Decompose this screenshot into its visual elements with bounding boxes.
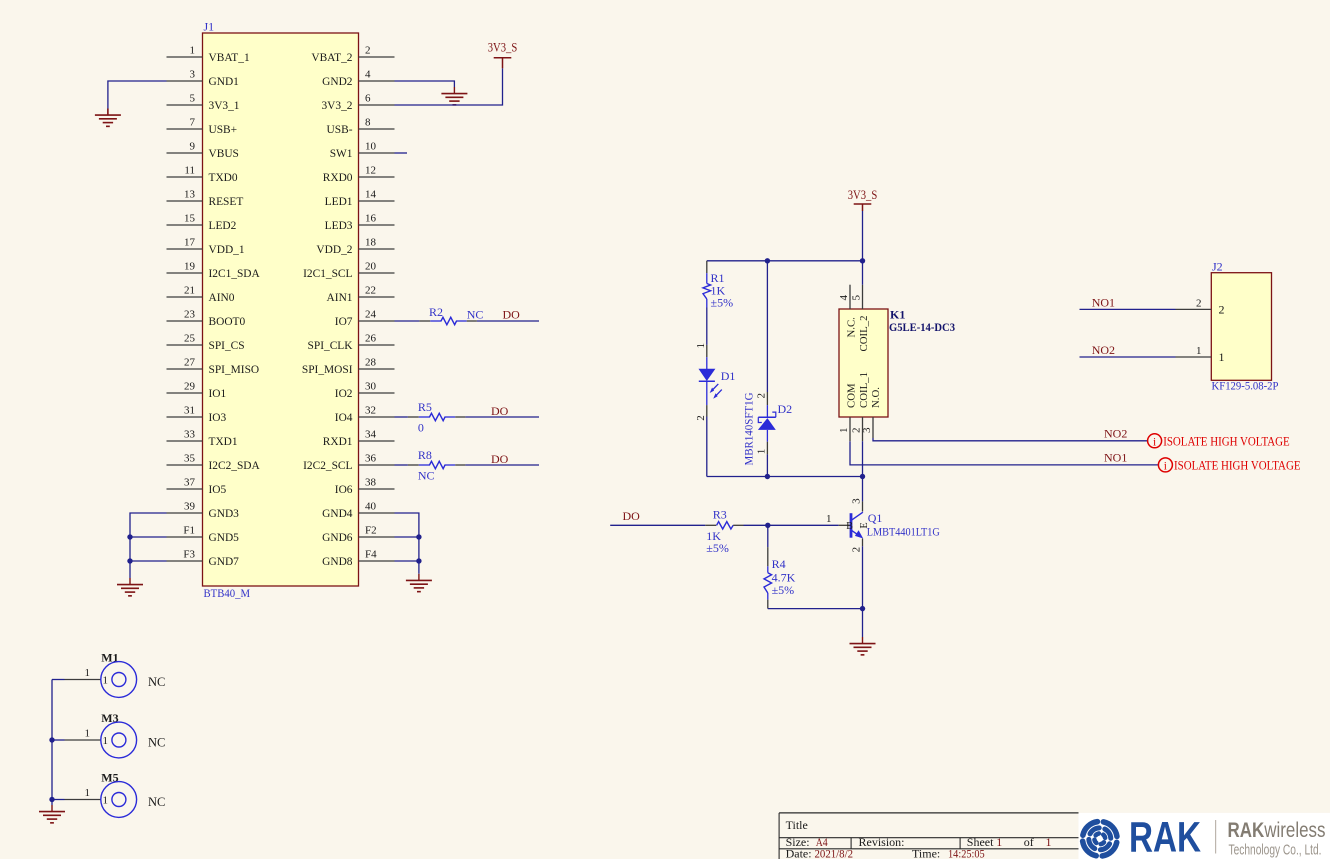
svg-text:2: 2 (851, 547, 863, 553)
ground (GND1) (95, 109, 121, 127)
svg-text:18: 18 (365, 237, 377, 249)
svg-text:33: 33 (184, 429, 196, 441)
svg-text:VDD_1: VDD_1 (209, 244, 245, 256)
junction (416, 558, 421, 563)
mounting hole M5 (52, 771, 165, 818)
svg-text:G5LE-14-DC3: G5LE-14-DC3 (889, 320, 955, 334)
svg-text:13: 13 (184, 189, 196, 201)
wire NO1 (relay pin1 to isolate) (850, 441, 1158, 465)
J1 pin 36 (I2C2_SCL) (303, 453, 394, 473)
svg-text:0: 0 (418, 420, 424, 434)
J1 pin 2 (VBAT_2) (311, 45, 394, 65)
junction (416, 534, 421, 539)
wire R2 to DO (477, 320, 539, 322)
J1 pin 27 (SPI_MISO) (167, 357, 260, 377)
svg-text:3V3_S: 3V3_S (488, 41, 518, 55)
svg-text:28: 28 (365, 357, 377, 369)
svg-text:30: 30 (365, 381, 377, 393)
J1 pin F2 (GND6) (322, 525, 394, 545)
ground (emitter) (850, 637, 876, 655)
J1 pin 29 (IO1) (167, 381, 227, 401)
svg-text:Revision:: Revision: (859, 835, 905, 849)
wire emitter down to ground node (862, 546, 864, 608)
title block row: date/time (786, 846, 985, 859)
wire D2 to bottom bus (766, 454, 768, 476)
svg-text:3V3_1: 3V3_1 (209, 100, 240, 112)
svg-text:1: 1 (85, 728, 91, 740)
svg-text:IO3: IO3 (209, 412, 227, 424)
J1 pin 23 (BOOT0) (167, 309, 246, 329)
ground (GND2) (441, 87, 467, 105)
svg-text:COIL_2: COIL_2 (858, 316, 870, 352)
svg-text:Technology Co., Ltd.: Technology Co., Ltd. (1229, 842, 1322, 859)
svg-text:USB-: USB- (327, 124, 353, 136)
wire pin2 to bottom bus (862, 441, 864, 476)
wire collector to bottom bus (862, 477, 864, 502)
J2 pin 1 (1176, 345, 1225, 364)
svg-text:NO2: NO2 (1092, 343, 1115, 357)
svg-text:D2: D2 (778, 402, 793, 416)
resistor R1 (703, 261, 733, 310)
svg-text:16: 16 (365, 213, 377, 225)
wire (107, 109, 109, 115)
K1 pin 1 (COM) (838, 383, 858, 441)
svg-text:J1: J1 (204, 20, 215, 34)
wire NO1 to J2 pin2 (1080, 308, 1176, 310)
J1 pin 3 (GND1) (167, 69, 240, 89)
wire mounting-hole bus (51, 680, 53, 800)
power symbol 3V3_S (relay supply) (854, 204, 872, 211)
svg-text:AIN1: AIN1 (327, 292, 353, 304)
J1 pin 10 (SW1) (330, 141, 395, 161)
svg-text:VBAT_1: VBAT_1 (209, 52, 250, 64)
junction (765, 523, 770, 528)
J1 pin 26 (SPI_CLK) (308, 333, 395, 353)
svg-text:3V3_2: 3V3_2 (321, 100, 352, 112)
svg-text:1: 1 (1196, 345, 1202, 357)
J1 pin 8 (USB-) (327, 117, 395, 137)
svg-text:2: 2 (756, 393, 768, 399)
svg-text:DO: DO (503, 308, 521, 322)
J1 pin 12 (RXD0) (323, 165, 395, 185)
svg-text:IO6: IO6 (335, 484, 353, 496)
wire F4 (395, 560, 419, 562)
svg-text:MBR140SFT1G: MBR140SFT1G (742, 392, 756, 465)
J1 pin F3 (GND7) (167, 549, 240, 569)
J1 pin 15 (LED2) (167, 213, 237, 233)
svg-text:19: 19 (184, 261, 196, 273)
svg-text:NC: NC (418, 468, 435, 482)
J1 pin 16 (LED3) (325, 213, 395, 233)
svg-text:1: 1 (695, 343, 707, 349)
wire bottom coil bus (707, 476, 863, 478)
J1 pin 9 (VBUS) (167, 141, 239, 161)
svg-text:J2: J2 (1212, 259, 1223, 273)
svg-text:1: 1 (826, 513, 832, 525)
svg-text:11: 11 (184, 165, 195, 177)
svg-text:14: 14 (365, 189, 377, 201)
svg-text:38: 38 (365, 477, 377, 489)
J1 pin 34 (RXD1) (323, 429, 395, 449)
svg-text:GND6: GND6 (322, 532, 353, 544)
ground (mounting holes) (39, 805, 65, 823)
svg-text:USB+: USB+ (209, 124, 238, 136)
junction (860, 258, 865, 263)
svg-text:3: 3 (851, 498, 863, 504)
wire R3 to Q1 base (744, 524, 839, 526)
svg-text:5: 5 (190, 93, 196, 105)
ground (GND3 bus) (117, 578, 143, 596)
svg-text:35: 35 (184, 453, 196, 465)
svg-text:1: 1 (756, 449, 768, 455)
svg-text:1: 1 (103, 795, 109, 807)
J1 pin 5 (3V3_1) (167, 93, 240, 113)
svg-text:32: 32 (365, 405, 376, 417)
resistor R5 (408, 400, 466, 434)
svg-text:2: 2 (1219, 303, 1225, 317)
svg-text:31: 31 (184, 405, 195, 417)
Q1 collector pin 3 (862, 501, 864, 511)
J1 pin 39 (GND3) (167, 501, 240, 521)
wire pin32 to R5 (395, 416, 408, 418)
svg-text:VDD_2: VDD_2 (316, 244, 352, 256)
svg-text:NC: NC (148, 736, 165, 750)
svg-text:NC: NC (148, 795, 165, 809)
RAK logo pinwheel icon (1083, 822, 1117, 856)
wire DO to R3 (610, 524, 705, 526)
wire SW1 pin10 stub (395, 152, 408, 154)
svg-text:1: 1 (103, 735, 109, 747)
J1 pin 32 (IO4) (335, 405, 395, 425)
svg-text:AIN0: AIN0 (209, 292, 235, 304)
svg-text:VBAT_2: VBAT_2 (311, 52, 352, 64)
svg-text:LMBT4401LT1G: LMBT4401LT1G (867, 525, 940, 539)
svg-text:I2C1_SDA: I2C1_SDA (209, 268, 261, 280)
logo background panel (1079, 813, 1330, 859)
resistor R8 (408, 448, 466, 482)
svg-text:4: 4 (365, 69, 371, 81)
svg-text:LED2: LED2 (209, 220, 237, 232)
wire GND2 pin4 to ground (395, 81, 455, 87)
J2 pin 2 (1176, 297, 1225, 316)
svg-text:NC: NC (467, 308, 484, 322)
J1 pin 1 (VBAT_1) (167, 45, 250, 65)
J1 pin 7 (USB+) (167, 117, 238, 137)
J1 pin 18 (VDD_2) (316, 237, 394, 257)
resistor R4 (764, 547, 796, 609)
svg-text:TXD0: TXD0 (209, 172, 238, 184)
svg-text:NO1: NO1 (1104, 450, 1127, 464)
svg-text:LED1: LED1 (325, 196, 353, 208)
isolate marker circle (NO2) (1148, 434, 1162, 448)
svg-text:GND4: GND4 (322, 508, 353, 520)
svg-text:i: i (1153, 436, 1156, 448)
svg-text:2021/8/2: 2021/8/2 (815, 846, 854, 859)
J1 pin 4 (GND2) (322, 69, 394, 89)
svg-text:21: 21 (184, 285, 195, 297)
svg-text:17: 17 (184, 237, 196, 249)
svg-text:SPI_MOSI: SPI_MOSI (302, 364, 353, 376)
logo divider (1215, 820, 1217, 854)
J1 pin 6 (3V3_2) (321, 93, 394, 113)
svg-text:ISOLATE HIGH VOLTAGE: ISOLATE HIGH VOLTAGE (1163, 434, 1290, 448)
svg-text:39: 39 (184, 501, 196, 513)
svg-text:IO7: IO7 (335, 316, 353, 328)
J1 pin 14 (LED1) (325, 189, 395, 209)
svg-text:KF129-5.08-2P: KF129-5.08-2P (1212, 379, 1279, 393)
wire pin36 to R8 (395, 464, 408, 466)
svg-text:Date:: Date: (786, 846, 812, 859)
svg-text:TXD1: TXD1 (209, 436, 238, 448)
svg-text:36: 36 (365, 453, 377, 465)
svg-text:BTB40_M: BTB40_M (204, 586, 251, 600)
title block table (779, 813, 1078, 859)
svg-text:SPI_CS: SPI_CS (209, 340, 245, 352)
J1 pin 37 (IO5) (167, 477, 227, 497)
J1 pin 33 (TXD1) (167, 429, 238, 449)
K1 pin 5 (COIL_2) (851, 285, 871, 352)
wire emitter node to ground (862, 609, 864, 637)
svg-text:1: 1 (1046, 835, 1052, 849)
svg-text:IO5: IO5 (209, 484, 227, 496)
svg-text:I2C2_SCL: I2C2_SCL (303, 460, 352, 472)
svg-text:14:25:05: 14:25:05 (948, 846, 985, 859)
svg-text:NO1: NO1 (1092, 295, 1115, 309)
J1 pin 35 (I2C2_SDA) (167, 453, 261, 473)
svg-text:1: 1 (190, 45, 196, 57)
J1 pin 24 (IO7) (335, 309, 395, 329)
svg-text:GND5: GND5 (209, 532, 240, 544)
svg-text:RXD0: RXD0 (323, 172, 353, 184)
wire 3V3_S down to top bus (862, 211, 864, 261)
svg-text:of: of (1024, 835, 1034, 849)
svg-text:4: 4 (838, 295, 850, 301)
svg-text:5: 5 (851, 295, 863, 301)
K1 pin 3 (N.O.) (861, 387, 882, 438)
svg-text:VBUS: VBUS (209, 148, 239, 160)
wire GND4/F2/F4 bus to ground (395, 513, 419, 574)
wire NO2 to J2 pin1 (1080, 356, 1176, 358)
svg-text:26: 26 (365, 333, 377, 345)
svg-text:LED3: LED3 (325, 220, 353, 232)
K1 pin 2 (COIL_1) (851, 372, 871, 441)
svg-text:1: 1 (838, 428, 850, 434)
svg-text:COM: COM (846, 383, 858, 408)
svg-text:40: 40 (365, 501, 377, 513)
svg-text:GND2: GND2 (322, 76, 353, 88)
svg-text:SPI_MISO: SPI_MISO (209, 364, 260, 376)
wire F3 (GND7) (130, 560, 167, 562)
J1 pin 28 (SPI_MOSI) (302, 357, 395, 377)
svg-text:1: 1 (85, 667, 91, 679)
svg-text:3: 3 (861, 427, 873, 433)
wire base node down to R4 (767, 525, 769, 547)
svg-text:DO: DO (491, 404, 509, 418)
junction (127, 558, 132, 563)
J1 pin F1 (GND5) (167, 525, 240, 545)
svg-text:M5: M5 (101, 771, 118, 785)
svg-text:F1: F1 (183, 525, 195, 537)
svg-text:37: 37 (184, 477, 196, 489)
connector J1 box (203, 33, 359, 586)
wire R4 to emitter node (768, 608, 863, 610)
svg-text:±5%: ±5% (706, 541, 729, 555)
svg-text:R4: R4 (772, 557, 786, 571)
junction (49, 737, 54, 742)
svg-text:N.O.: N.O. (870, 387, 882, 408)
J1 pin 17 (VDD_1) (167, 237, 245, 257)
svg-text:±5%: ±5% (711, 295, 734, 309)
svg-text:GND1: GND1 (209, 76, 240, 88)
resistor R2 (419, 305, 477, 325)
svg-text:2: 2 (365, 45, 371, 57)
svg-text:F2: F2 (365, 525, 377, 537)
svg-text:GND7: GND7 (209, 556, 240, 568)
svg-text:25: 25 (184, 333, 196, 345)
svg-text:2: 2 (695, 415, 707, 421)
svg-text:SW1: SW1 (330, 148, 353, 160)
J1 pin 30 (IO2) (335, 381, 395, 401)
svg-text:9: 9 (190, 141, 196, 153)
wire R5 to DO (465, 416, 539, 418)
svg-text:8: 8 (365, 117, 371, 129)
svg-text:GND8: GND8 (322, 556, 353, 568)
wire 3V3_2 pin6 to 3V3_S power (395, 68, 503, 105)
Q1 base pin (839, 524, 851, 526)
svg-text:IO2: IO2 (335, 388, 353, 400)
J1 pin 21 (AIN0) (167, 285, 235, 305)
connector J2 box (1211, 273, 1271, 381)
J1 pin 22 (AIN1) (327, 285, 395, 305)
svg-text:R3: R3 (713, 508, 727, 522)
J1 pin 40 (GND4) (322, 501, 394, 521)
svg-text:2: 2 (1196, 297, 1202, 309)
svg-text:F4: F4 (365, 549, 377, 561)
svg-text:NC: NC (148, 675, 165, 689)
title block row: size/revision/sheet (786, 835, 1052, 849)
svg-text:I2C2_SDA: I2C2_SDA (209, 460, 261, 472)
wire R8 to DO (465, 464, 539, 466)
svg-text:RESET: RESET (209, 196, 244, 208)
junction (49, 797, 54, 802)
svg-text:24: 24 (365, 309, 377, 321)
svg-text:±5%: ±5% (772, 583, 795, 597)
svg-text:7: 7 (190, 117, 196, 129)
J1 pin F4 (GND8) (322, 549, 394, 569)
svg-text:R8: R8 (418, 448, 432, 462)
svg-text:DO: DO (623, 509, 641, 523)
diode D2 (schottky) (742, 392, 793, 466)
wire pin24 to R2 (395, 320, 420, 322)
svg-text:D1: D1 (721, 369, 736, 383)
svg-text:ISOLATE HIGH VOLTAGE: ISOLATE HIGH VOLTAGE (1174, 458, 1301, 472)
svg-text:1: 1 (1219, 350, 1225, 364)
svg-text:3V3_S: 3V3_S (848, 188, 878, 202)
wire pin5 to top bus (862, 261, 864, 285)
J1 pin 19 (I2C1_SDA) (167, 261, 261, 281)
wire GND3/GND5/GND7 bus to ground (130, 513, 167, 578)
svg-text:6: 6 (365, 93, 371, 105)
svg-text:1: 1 (103, 675, 109, 687)
svg-text:29: 29 (184, 381, 196, 393)
svg-text:RAK: RAK (1129, 814, 1201, 859)
svg-text:22: 22 (365, 285, 376, 297)
svg-text:1: 1 (85, 787, 91, 799)
wire NO2 (relay pin3 to isolate) (873, 438, 1148, 441)
svg-text:GND3: GND3 (209, 508, 240, 520)
svg-text:1: 1 (996, 835, 1002, 849)
K1 pin 4 (N.C. coil side) (838, 285, 858, 338)
svg-text:B: B (846, 521, 853, 532)
ground (GND4 bus) (406, 574, 432, 592)
transistor Q1 (846, 511, 940, 539)
wire top coil bus (707, 260, 863, 262)
svg-text:R2: R2 (429, 305, 443, 319)
J1 pin 38 (IO6) (335, 477, 395, 497)
svg-text:DO: DO (491, 452, 509, 466)
svg-text:Time:: Time: (912, 846, 940, 859)
junction (765, 258, 770, 263)
svg-text:23: 23 (184, 309, 196, 321)
svg-text:12: 12 (365, 165, 376, 177)
svg-text:I2C1_SCL: I2C1_SCL (303, 268, 352, 280)
svg-text:SPI_CLK: SPI_CLK (308, 340, 354, 352)
svg-text:20: 20 (365, 261, 377, 273)
svg-text:NO2: NO2 (1104, 427, 1127, 441)
wire GND1 pin3 to ground (108, 81, 167, 109)
svg-text:COIL_1: COIL_1 (858, 372, 870, 408)
svg-text:BOOT0: BOOT0 (209, 316, 246, 328)
svg-text:3: 3 (190, 69, 196, 81)
svg-text:RXD1: RXD1 (323, 436, 353, 448)
wire F2 (395, 536, 419, 538)
J1 pin 25 (SPI_CS) (167, 333, 245, 353)
junction (765, 474, 770, 479)
svg-text:15: 15 (184, 213, 196, 225)
J1 pin 11 (TXD0) (167, 165, 238, 185)
J1 pin 20 (I2C1_SCL) (303, 261, 394, 281)
svg-text:34: 34 (365, 429, 377, 441)
J1 pin 31 (IO3) (167, 405, 227, 425)
wire R1 to D1 (706, 308, 708, 345)
svg-text:27: 27 (184, 357, 196, 369)
mounting hole M3 (52, 711, 165, 758)
svg-text:IO4: IO4 (335, 412, 353, 424)
junction (860, 474, 865, 479)
svg-text:N.C.: N.C. (846, 317, 858, 337)
Q1 emitter pin 2 (862, 539, 864, 547)
wire bus to ground (51, 800, 53, 806)
svg-text:i: i (1164, 460, 1167, 472)
svg-text:R5: R5 (418, 400, 432, 414)
svg-text:M1: M1 (101, 651, 118, 665)
wire D1 to bottom bus (706, 417, 708, 477)
junction (860, 606, 865, 611)
J1 pin 13 (RESET) (167, 189, 244, 209)
wire F1 (GND5) (130, 536, 167, 538)
mounting hole M1 (52, 651, 165, 698)
resistor R3 (705, 508, 743, 556)
svg-text:IO1: IO1 (209, 388, 227, 400)
wire top bus to D2 (766, 261, 768, 392)
svg-text:F3: F3 (183, 549, 195, 561)
relay K1 box (839, 309, 888, 417)
svg-text:RAKwireless: RAKwireless (1228, 818, 1326, 842)
svg-text:10: 10 (365, 141, 377, 153)
isolate marker circle (NO1) (1158, 458, 1172, 472)
power symbol 3V3_S (top right) (494, 58, 512, 69)
svg-text:Q1: Q1 (868, 511, 883, 525)
